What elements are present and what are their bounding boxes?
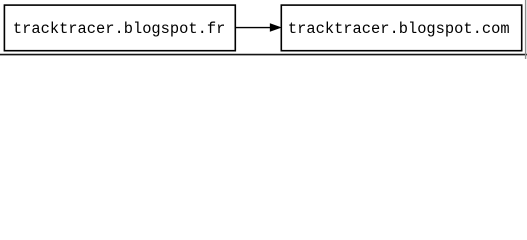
right vertical border line [525, 0, 527, 59]
bottom horizontal border line [0, 54, 527, 56]
node tracktracer.blogspot.com box [281, 5, 521, 51]
svg-text:tracktracer.blogspot.fr: tracktracer.blogspot.fr [13, 20, 225, 38]
edge arrowhead [270, 24, 281, 32]
node tracktracer.blogspot.fr box [4, 5, 235, 51]
background [0, 0, 527, 59]
wire edge shaft [236, 27, 271, 29]
svg-text:tracktracer.blogspot.com: tracktracer.blogspot.com [288, 20, 510, 38]
